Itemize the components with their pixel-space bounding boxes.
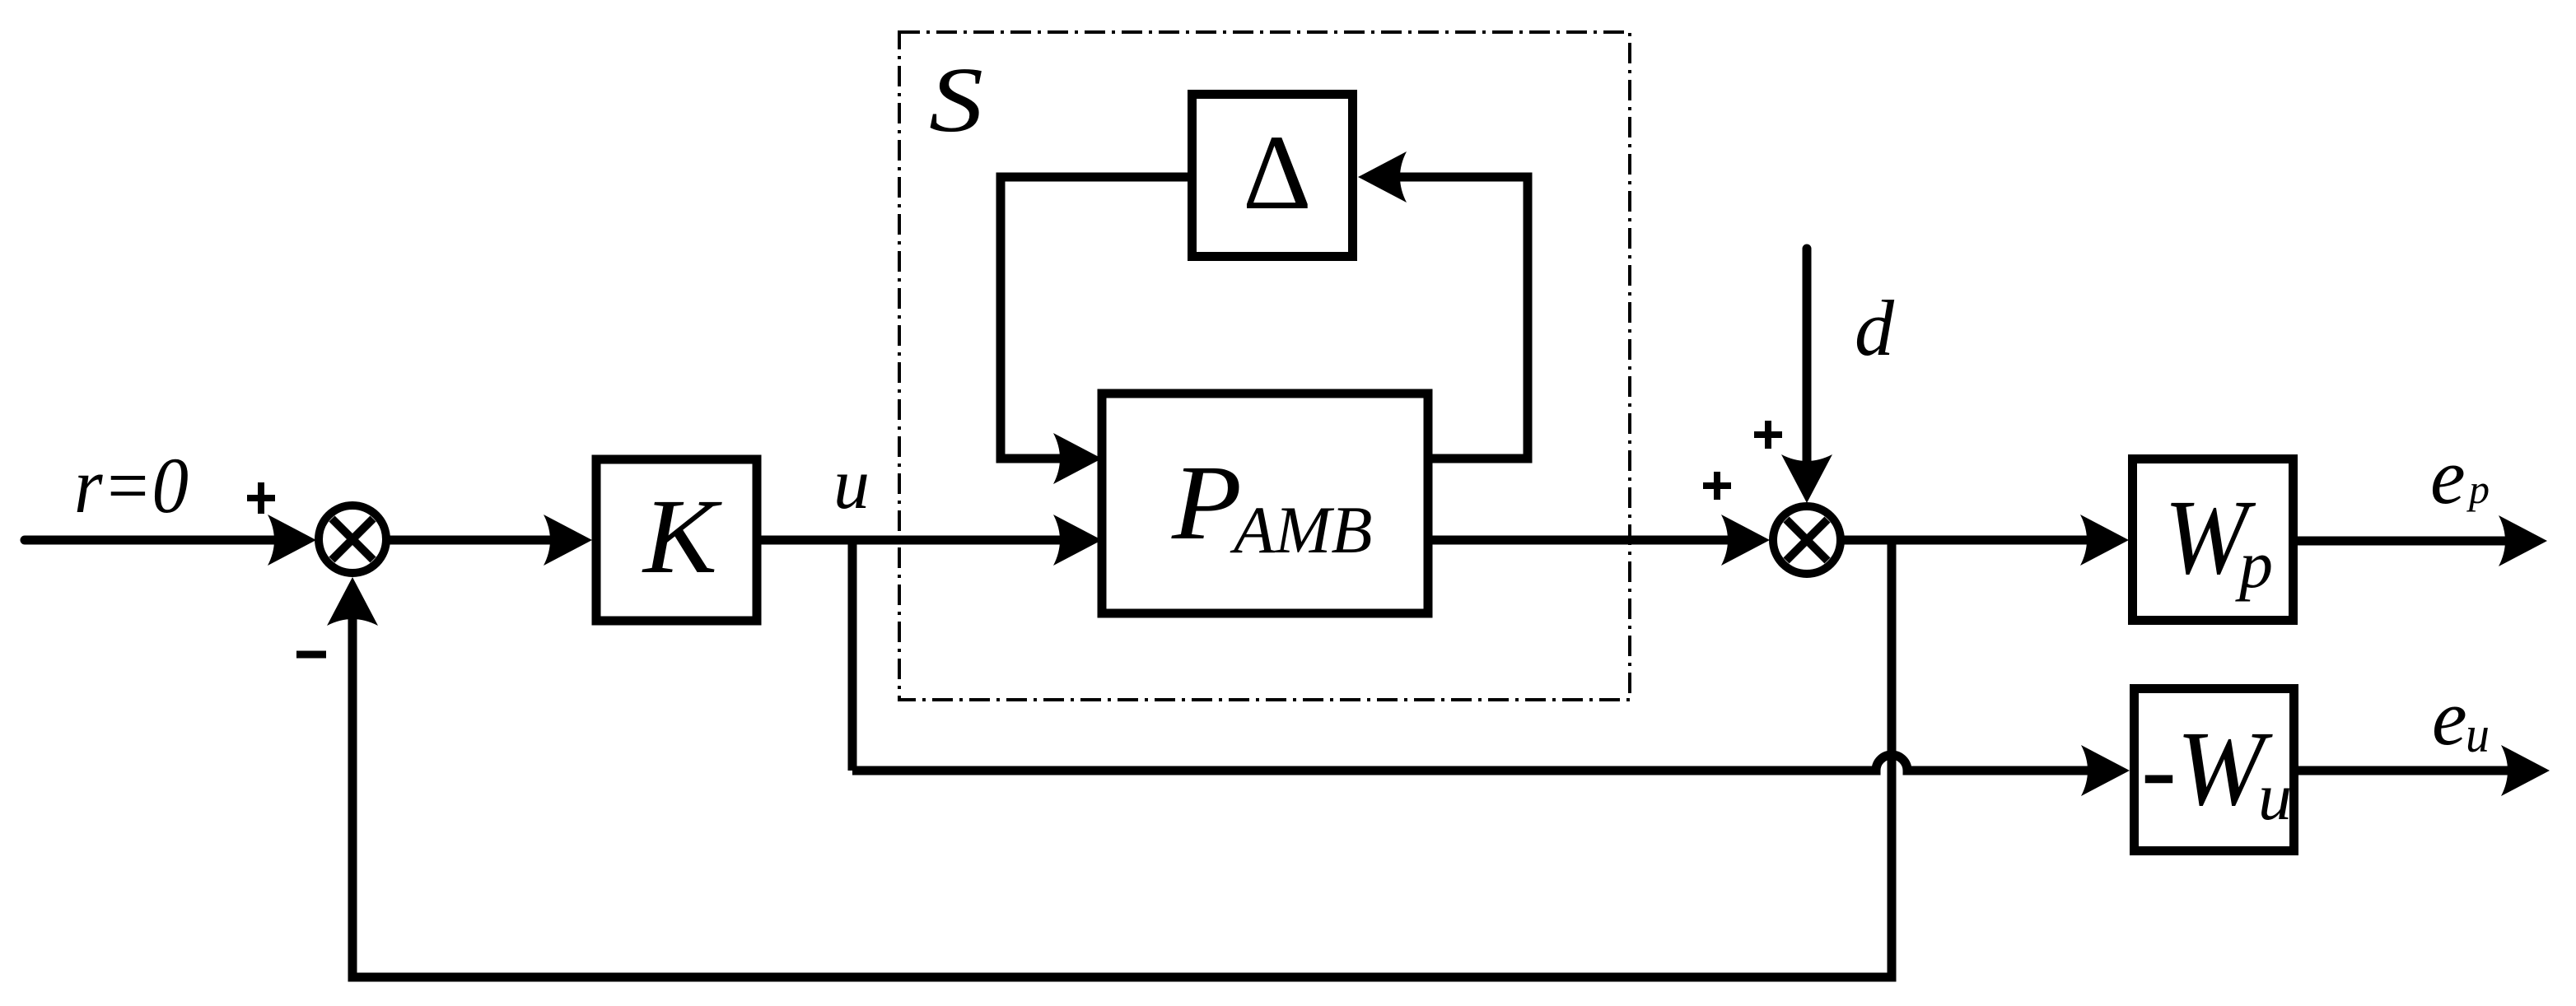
svg-text:S: S — [929, 49, 983, 151]
svg-text:K: K — [642, 477, 723, 596]
arrowhead into junction 2 — [1721, 515, 1770, 566]
arrowhead e_p output — [2499, 515, 2547, 566]
label + at d input — [1754, 421, 1782, 449]
svg-text:d: d — [1855, 284, 1895, 372]
summing junction 2 — [1773, 506, 1841, 574]
label + at junction 1 input — [247, 482, 275, 514]
arrowhead feedback into junction 1 — [327, 577, 378, 626]
block K — [596, 459, 757, 621]
svg-text:-W: -W — [2141, 710, 2274, 828]
svg-text:p: p — [2235, 527, 2273, 602]
wire junction 1 to K — [390, 536, 552, 545]
block delta — [1192, 95, 1353, 257]
arrowhead into -W_u — [2081, 745, 2130, 796]
wire W_p to e_p output — [2298, 537, 2508, 546]
svg-text:P: P — [1171, 444, 1242, 562]
arrowhead into P_AMB main input — [1053, 515, 1102, 566]
arrowhead into P_AMB upper input — [1053, 433, 1102, 484]
arrowhead e_u output — [2501, 745, 2550, 796]
wire delta output left loop — [1001, 177, 1188, 459]
wire P_AMB upper output right loop — [1400, 177, 1528, 459]
block P_AMB — [1102, 394, 1428, 613]
wire K to P_AMB — [761, 536, 1062, 545]
label + at junction 2 left input — [1703, 472, 1731, 500]
block -W_u — [2135, 689, 2294, 851]
svg-text:Δ: Δ — [1243, 114, 1312, 232]
label e_p — [2430, 432, 2490, 520]
svg-text:e: e — [2430, 432, 2466, 520]
svg-text:AMB: AMB — [1230, 492, 1372, 567]
label e_u — [2432, 673, 2490, 763]
arrowhead into K — [544, 515, 592, 566]
label minus at feedback input — [296, 651, 326, 659]
wire d input — [1803, 249, 1812, 463]
svg-text:u: u — [833, 445, 870, 524]
arrowhead into W_p — [2080, 515, 2129, 566]
arrowhead into delta — [1358, 151, 1407, 203]
block W_p — [2133, 459, 2294, 621]
svg-text:p: p — [2466, 466, 2490, 512]
arrowhead into junction 1 — [268, 515, 316, 566]
node u branch — [848, 540, 857, 771]
svg-text:u: u — [2258, 759, 2292, 834]
svg-text:e: e — [2432, 673, 2467, 761]
arrowhead d into junction 2 — [1781, 454, 1832, 503]
wire lower rail to -W_u with hop — [852, 755, 2090, 771]
wire feedback from output node — [352, 540, 1892, 977]
svg-text:u: u — [2466, 707, 2490, 763]
dash-dot box S — [899, 32, 1630, 700]
wire P_AMB to junction 2 — [1432, 536, 1730, 545]
wire -W_u to e_u output — [2298, 766, 2510, 775]
wire junction 2 to W_p — [1844, 536, 2089, 545]
wire r input — [25, 536, 277, 545]
svg-text:r=0: r=0 — [74, 441, 189, 529]
summing junction 1 — [319, 505, 386, 573]
